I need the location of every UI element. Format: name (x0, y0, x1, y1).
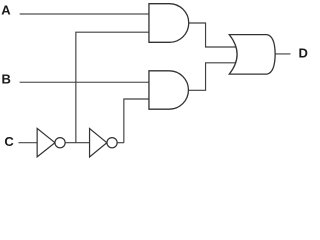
wire OR output to D (274, 53, 291, 55)
svg-text:B: B (1, 71, 10, 86)
svg-text:C: C (4, 134, 14, 149)
svg-text:D: D (298, 46, 307, 61)
wire vertical from U2 output up to AND2 input 2 (124, 99, 149, 143)
wire B to AND2 input 1 (20, 81, 149, 83)
inverter U1 triangle (37, 128, 55, 157)
wire AND2 output to OR input 2 (188, 63, 237, 91)
wire U2 output (117, 142, 124, 144)
OR gate (output D) (229, 35, 275, 74)
AND gate 1 (inputs A, NOT C) (149, 4, 189, 43)
AND gate 2 (inputs B, C) (149, 71, 188, 109)
inverter U2 bubble (107, 138, 117, 148)
wire AND1 output to OR input 1 (188, 23, 237, 47)
wire A to AND1 input 1 (20, 13, 149, 15)
wire C to inverter U1 input (18, 142, 37, 144)
inverter U1 bubble (55, 138, 65, 148)
wire branch vertical from U1-U2 net up to AND1 input 2 (76, 32, 149, 143)
wire U1 output to U2 input (65, 142, 89, 144)
svg-text:A: A (1, 2, 11, 17)
inverter U2 triangle (90, 129, 107, 158)
